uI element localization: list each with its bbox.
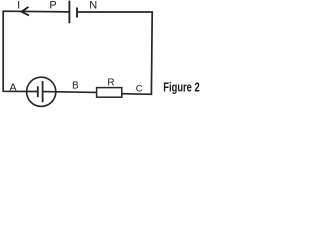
cell positive plate (long, right) bbox=[42, 81, 44, 102]
svg-text:I: I bbox=[17, 0, 20, 12]
resistor R (box) bbox=[97, 88, 122, 98]
svg-text:B: B bbox=[72, 81, 79, 92]
wire: top-right segment, right side, bottom-right run to resistor bbox=[78, 12, 152, 94]
current arrow I (pointing left on top wire) bbox=[22, 7, 30, 16]
svg-text:A: A bbox=[10, 82, 17, 94]
cell negative plate (short, left) bbox=[37, 86, 39, 97]
cell enclosure circle bbox=[27, 77, 56, 106]
svg-text:C: C bbox=[136, 83, 143, 94]
capacitor plate P (long plate) bbox=[68, 1, 70, 24]
svg-text:P: P bbox=[49, 0, 56, 12]
wire: cell positive plate to resistor (node B) bbox=[43, 91, 97, 94]
svg-text:Figure 2: Figure 2 bbox=[163, 79, 199, 94]
svg-text:N: N bbox=[89, 0, 97, 12]
wire: top-left segment, left side, bottom-left run into cell bbox=[3, 11, 69, 91]
svg-text:R: R bbox=[107, 77, 114, 88]
capacitor plate N (short plate) bbox=[76, 8, 78, 18]
